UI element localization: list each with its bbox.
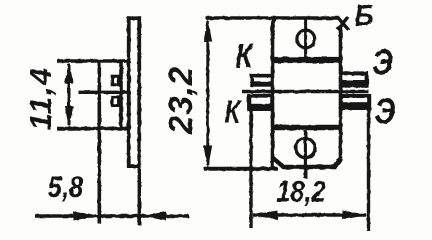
svg-text:Э: Э	[372, 41, 393, 82]
svg-text:К: К	[224, 95, 242, 130]
svg-text:Э: Э	[375, 90, 396, 131]
svg-text:18,2: 18,2	[276, 175, 326, 208]
svg-text:23,2: 23,2	[162, 66, 199, 135]
svg-text:К: К	[235, 37, 254, 76]
svg-text:5,8: 5,8	[48, 170, 84, 203]
svg-text:11,4: 11,4	[23, 66, 58, 130]
svg-text:Б: Б	[354, 0, 373, 33]
